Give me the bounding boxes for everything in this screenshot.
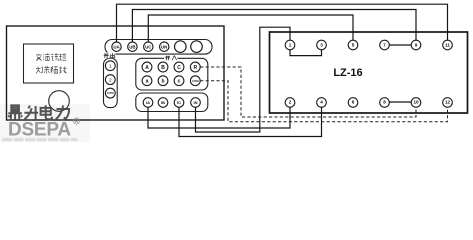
- svg-text:B: B: [161, 65, 165, 71]
- svg-text:10: 10: [413, 100, 419, 105]
- svg-text:UC: UC: [145, 44, 152, 49]
- svg-text:UN: UN: [161, 44, 167, 49]
- svg-text:IA: IA: [146, 100, 150, 105]
- svg-text:1: 1: [289, 43, 292, 48]
- svg-text:LZ-16: LZ-16: [333, 67, 362, 79]
- svg-text:COM: COM: [107, 91, 114, 95]
- svg-text:4: 4: [320, 100, 323, 105]
- svg-text:UA: UA: [113, 44, 120, 49]
- svg-text:2: 2: [109, 77, 112, 83]
- svg-text:3: 3: [320, 43, 323, 48]
- svg-text:UB: UB: [129, 44, 135, 49]
- svg-text:R: R: [193, 65, 197, 71]
- svg-text:DSEPA: DSEPA: [8, 120, 71, 141]
- svg-text:1: 1: [109, 64, 112, 70]
- svg-text:2: 2: [289, 100, 292, 105]
- svg-text:12: 12: [445, 100, 451, 105]
- svg-text:9: 9: [415, 43, 418, 48]
- svg-text:c: c: [178, 79, 181, 85]
- svg-text:IC: IC: [177, 100, 181, 105]
- svg-text:11: 11: [445, 43, 450, 48]
- svg-text:C: C: [177, 65, 181, 71]
- svg-text:6: 6: [352, 100, 355, 105]
- svg-text:8: 8: [383, 100, 386, 105]
- svg-text:IN: IN: [194, 100, 198, 105]
- svg-text:IB: IB: [161, 100, 165, 105]
- svg-text:b: b: [161, 79, 164, 85]
- svg-text:a: a: [146, 79, 149, 85]
- svg-text:7: 7: [383, 43, 386, 48]
- svg-text:A: A: [145, 65, 149, 71]
- svg-text:COM: COM: [192, 79, 199, 83]
- svg-text:5: 5: [352, 43, 355, 48]
